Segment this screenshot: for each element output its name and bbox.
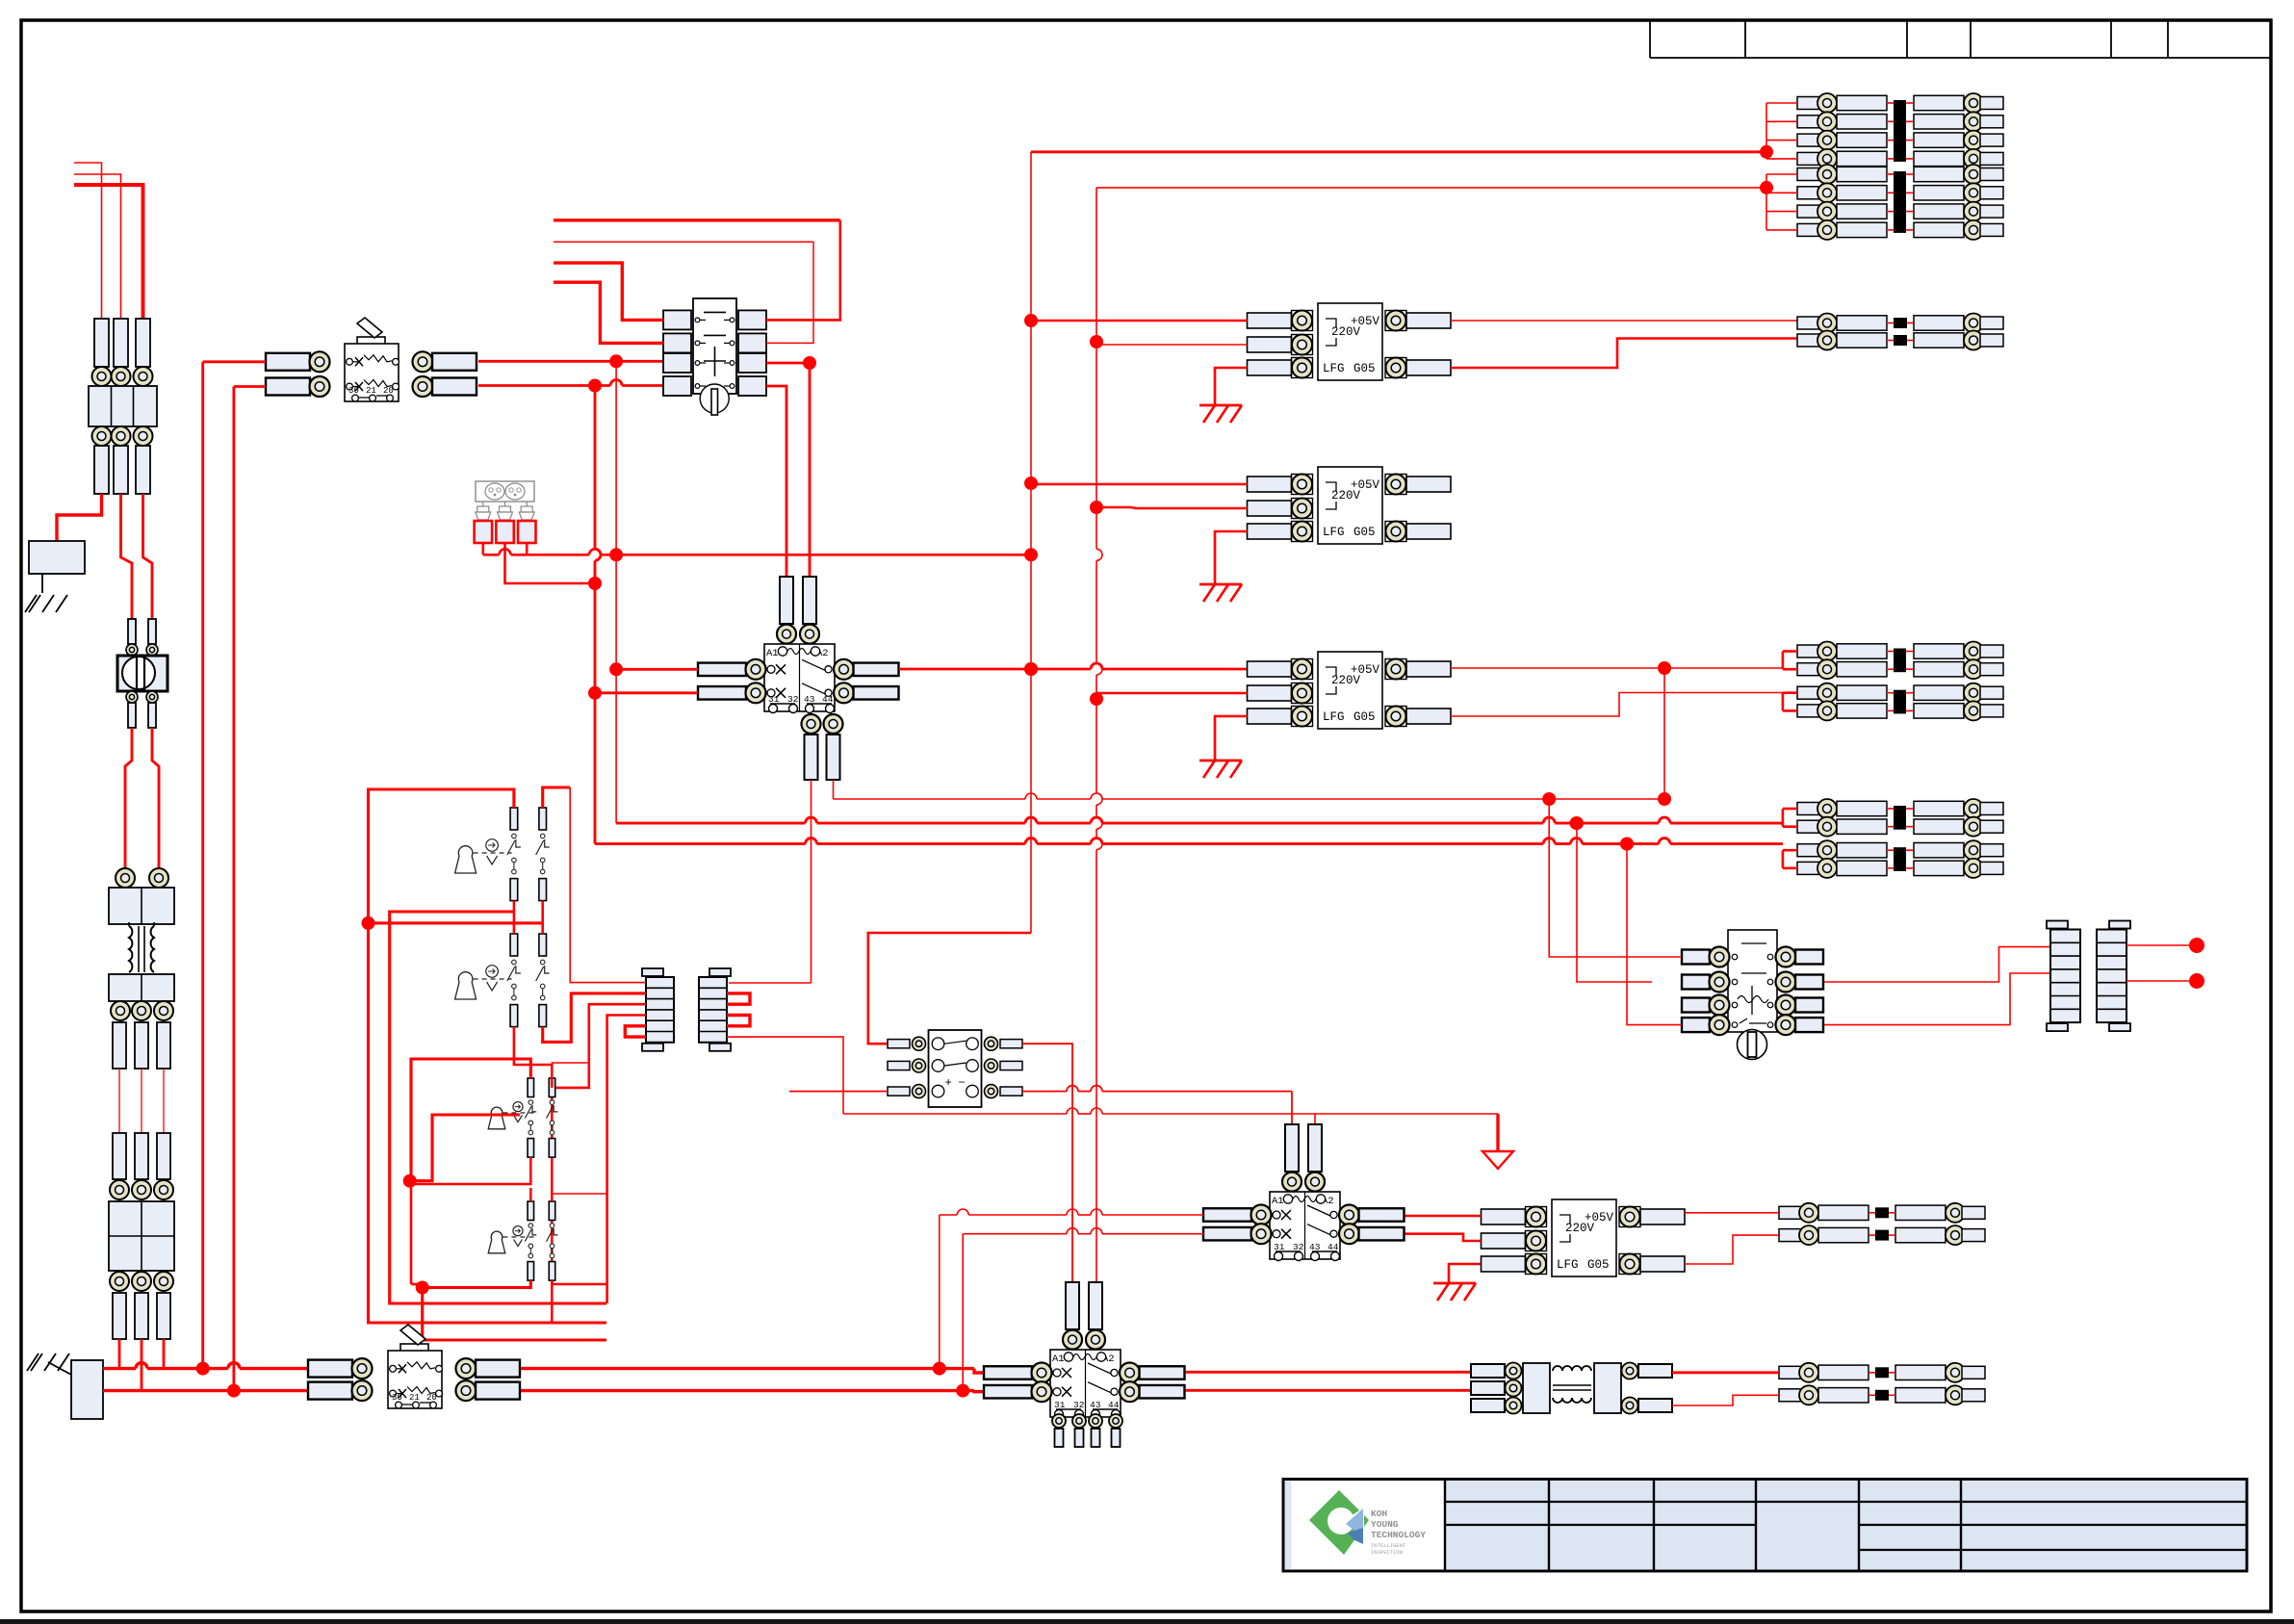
svg-text:20: 20 (426, 1393, 437, 1403)
svg-text:YOUNG: YOUNG (1371, 1519, 1399, 1530)
svg-text:+: + (945, 1076, 952, 1090)
svg-text:A1: A1 (1052, 1353, 1065, 1365)
svg-text:INTELLIGENT: INTELLIGENT (1371, 1542, 1406, 1549)
svg-text:LFG: LFG (1557, 1258, 1579, 1272)
svg-text:INSPECTION: INSPECTION (1371, 1549, 1403, 1556)
svg-text:21: 21 (409, 1393, 420, 1403)
svg-text:+05V: +05V (1585, 1211, 1614, 1224)
svg-text:30: 30 (348, 386, 359, 396)
svg-text:G05: G05 (1353, 362, 1376, 375)
svg-text:+05V: +05V (1351, 663, 1380, 677)
svg-text:G05: G05 (1353, 710, 1376, 724)
svg-text:+05V: +05V (1351, 315, 1380, 328)
svg-text:G05: G05 (1353, 526, 1376, 539)
svg-text:LFG: LFG (1323, 526, 1345, 539)
svg-text:LFG: LFG (1323, 362, 1345, 375)
svg-text:30: 30 (392, 1393, 402, 1403)
svg-text:21: 21 (366, 386, 376, 396)
svg-text:A1: A1 (1272, 1196, 1284, 1207)
svg-text:20: 20 (383, 386, 394, 396)
svg-text:A1: A1 (766, 648, 779, 659)
svg-text:KOH: KOH (1371, 1508, 1387, 1519)
svg-text:−: − (959, 1076, 966, 1090)
svg-text:+05V: +05V (1351, 478, 1380, 492)
svg-text:LFG: LFG (1323, 710, 1345, 724)
svg-text:G05: G05 (1587, 1258, 1610, 1272)
svg-text:TECHNOLOGY: TECHNOLOGY (1371, 1530, 1426, 1540)
